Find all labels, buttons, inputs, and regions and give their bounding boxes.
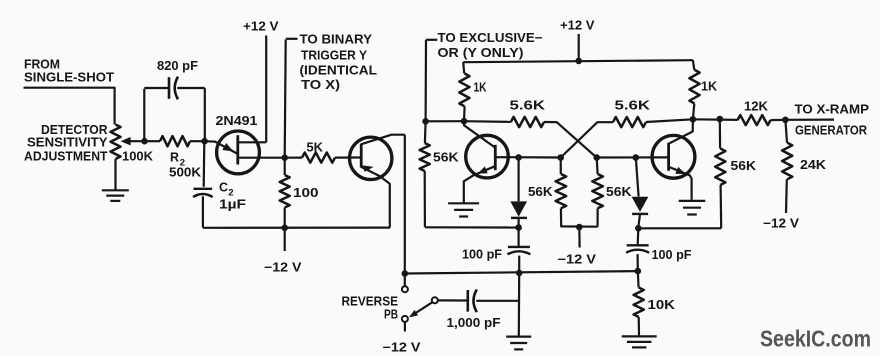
svg-text:SENSITIVITY: SENSITIVITY — [27, 136, 108, 150]
svg-text:+12 V: +12 V — [243, 20, 279, 34]
svg-text:12K: 12K — [744, 100, 768, 114]
svg-text:24K: 24K — [800, 158, 826, 172]
svg-text:SINGLE-SHOT: SINGLE-SHOT — [24, 71, 114, 85]
svg-text:1,000 pF: 1,000 pF — [447, 316, 501, 330]
svg-text:R: R — [170, 151, 179, 165]
svg-text:5K: 5K — [307, 141, 324, 155]
svg-text:TRIGGER Y: TRIGGER Y — [301, 49, 368, 63]
svg-text:1µF: 1µF — [219, 198, 246, 212]
svg-text:2N491: 2N491 — [216, 114, 258, 128]
svg-text:100 pF: 100 pF — [652, 248, 692, 262]
svg-text:PB: PB — [384, 308, 398, 322]
svg-text:820 pF: 820 pF — [157, 59, 198, 73]
svg-text:56K: 56K — [528, 185, 553, 199]
svg-text:5.6K: 5.6K — [510, 99, 546, 113]
svg-text:−12 V: −12 V — [558, 253, 597, 267]
svg-text:56K: 56K — [731, 159, 757, 173]
svg-text:1K: 1K — [474, 81, 487, 95]
svg-text:TO BINARY: TO BINARY — [300, 33, 373, 47]
svg-text:(IDENTICAL: (IDENTICAL — [300, 64, 378, 78]
svg-text:100K: 100K — [122, 150, 153, 164]
svg-text:TO X): TO X) — [301, 78, 340, 92]
svg-text:TO X-RAMP: TO X-RAMP — [795, 103, 870, 117]
svg-text:−12 V: −12 V — [264, 261, 302, 275]
svg-text:ADJUSTMENT: ADJUSTMENT — [24, 150, 108, 164]
svg-text:C: C — [219, 181, 228, 195]
svg-text:SeekIC.com: SeekIC.com — [760, 326, 871, 352]
svg-text:−12 V: −12 V — [383, 341, 422, 355]
svg-text:56K: 56K — [606, 185, 632, 199]
svg-text:REVERSE: REVERSE — [342, 295, 399, 309]
svg-text:OR (Y ONLY): OR (Y ONLY) — [438, 46, 524, 60]
svg-text:5.6K: 5.6K — [615, 99, 651, 113]
svg-text:GENERATOR: GENERATOR — [795, 124, 867, 138]
svg-text:10K: 10K — [648, 298, 676, 312]
svg-text:1K: 1K — [701, 80, 717, 94]
svg-text:FROM: FROM — [24, 58, 60, 72]
svg-text:100: 100 — [293, 186, 319, 200]
svg-text:−12 V: −12 V — [763, 217, 800, 231]
svg-text:500K: 500K — [169, 166, 201, 180]
svg-text:56K: 56K — [433, 151, 459, 165]
svg-text:+12 V: +12 V — [560, 19, 595, 33]
svg-text:100 pF: 100 pF — [462, 248, 502, 262]
svg-text:TO EXCLUSIVE−: TO EXCLUSIVE− — [438, 31, 543, 45]
